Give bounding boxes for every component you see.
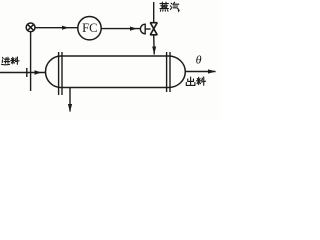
wire sensor to FC [35, 27, 78, 29]
汽 [170, 2, 179, 11]
料 [11, 57, 19, 64]
left head [45, 56, 61, 88]
arrow condensate down [68, 104, 72, 112]
wire condensate outlet [69, 88, 71, 112]
right tube sheet [166, 52, 168, 92]
料 [196, 77, 205, 85]
right head [169, 56, 186, 88]
蒸 [160, 2, 168, 11]
wire feed pipe [0, 72, 46, 74]
controller FC [78, 17, 101, 40]
wire steam line lower [153, 35, 156, 55]
进 [2, 57, 10, 64]
feed flow arrow [35, 70, 42, 74]
orifice flange tick [26, 68, 28, 77]
control valve body [150, 23, 157, 35]
label feed (进料) hand-drawn [2, 57, 19, 65]
flow element circle-X [26, 23, 35, 32]
wire FC to valve [101, 28, 141, 30]
heat exchanger shell top [61, 55, 169, 57]
label product (出料) hand-drawn [186, 77, 205, 86]
wire steam line upper [153, 2, 155, 23]
arrow into valve actuator [130, 27, 137, 31]
label steam (蒸汽) hand-drawn [160, 2, 179, 11]
arrow into FC [62, 26, 69, 30]
wire product outlet [185, 71, 215, 73]
svg-text:θ: θ [196, 53, 202, 67]
wire tap line to flow sensor [30, 32, 32, 91]
heat exchanger shell bottom [61, 87, 169, 89]
arrow steam into shell [152, 47, 156, 55]
出 [186, 77, 195, 85]
valve diaphragm actuator [140, 24, 145, 34]
wire actuator to valve body [145, 28, 150, 30]
svg-text:FC: FC [82, 21, 97, 35]
left tube sheet [58, 52, 60, 95]
arrow product right [208, 69, 216, 73]
